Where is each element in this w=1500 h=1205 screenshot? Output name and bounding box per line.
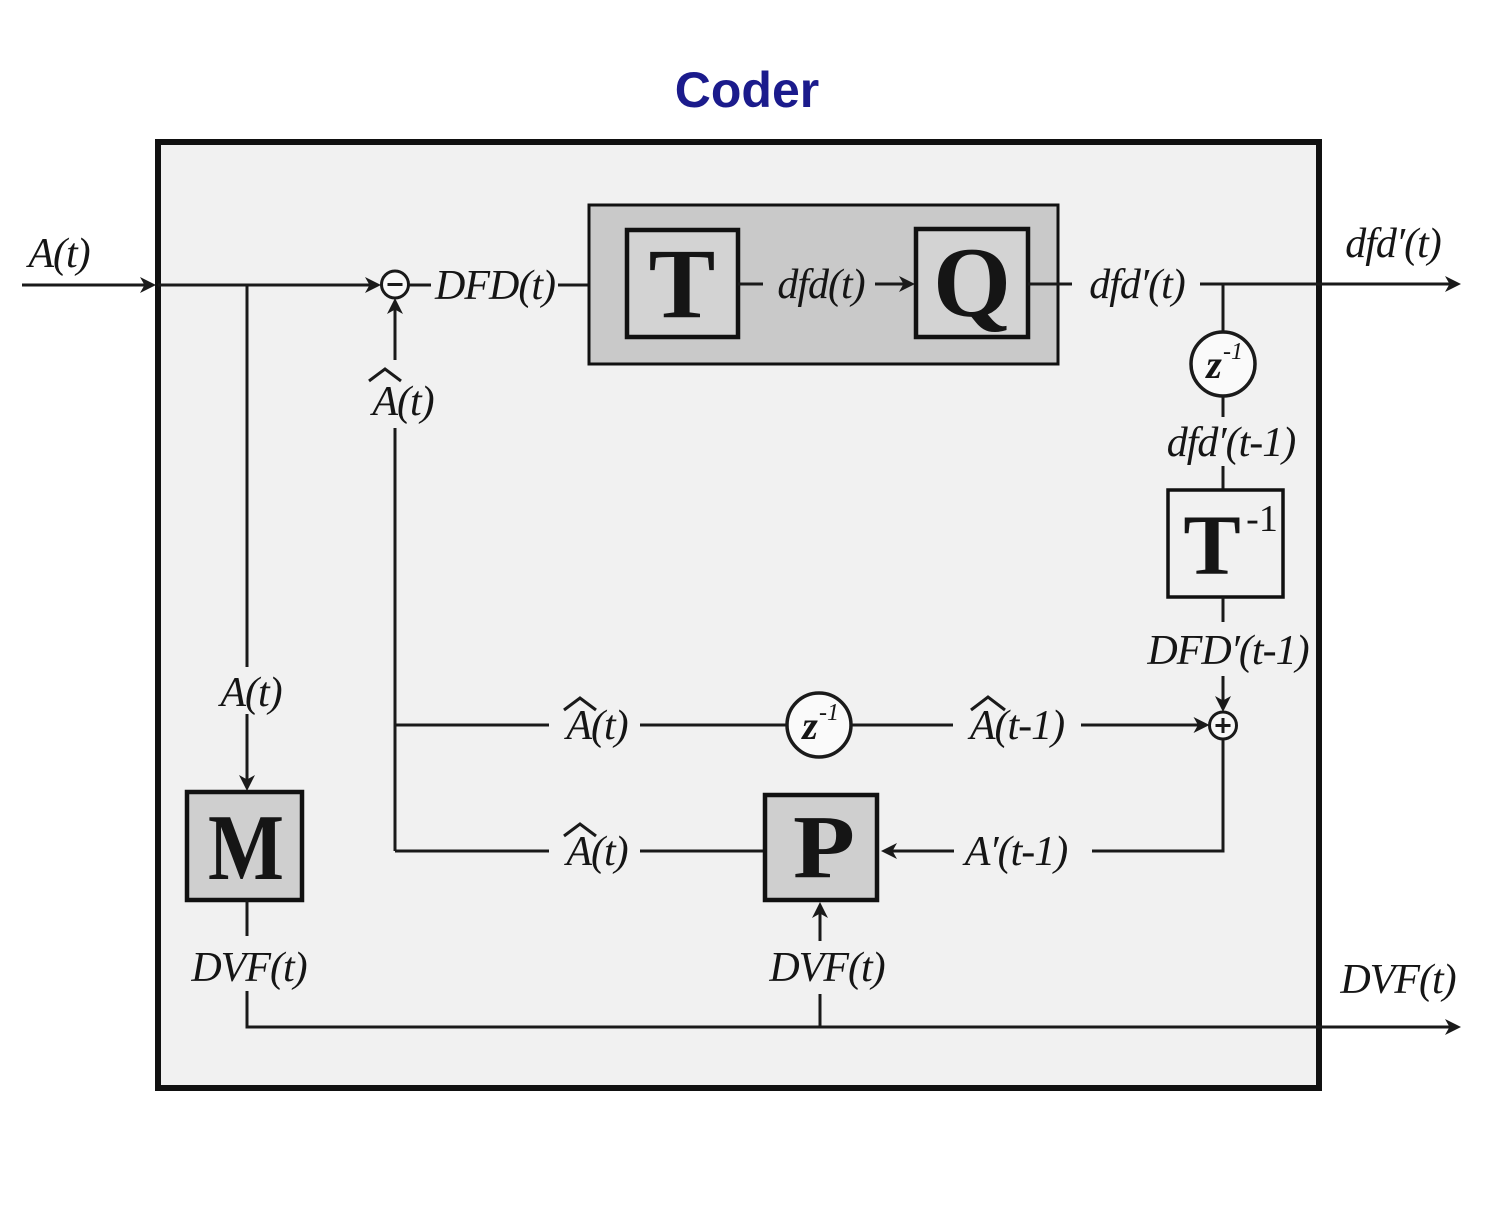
wire dfd'(t-1) to T inverse xyxy=(1222,466,1225,490)
adder node (plus) xyxy=(1210,712,1237,739)
svg-text:z: z xyxy=(1204,342,1222,387)
wire label to delay (mid) xyxy=(640,724,786,727)
svg-text:A(t-1): A(t-1) xyxy=(967,703,1064,749)
wire mid row from feedback to label xyxy=(395,724,549,727)
wire DFD(t) to T block xyxy=(558,284,627,287)
delay z^-1 block (mid) xyxy=(787,693,851,757)
wire T inverse to DFD'(t-1) xyxy=(1222,597,1225,622)
svg-text:dfd′(t): dfd′(t) xyxy=(1089,262,1185,308)
block M xyxy=(187,792,302,900)
wire hat-A(t) arrow up into subtractor xyxy=(394,309,397,360)
block Q xyxy=(916,229,1028,337)
wire input A(t) into box xyxy=(22,284,146,287)
wire DVF(t) arrow up into P xyxy=(819,913,822,941)
svg-text:A′(t-1): A′(t-1) xyxy=(962,829,1067,875)
svg-text:P: P xyxy=(793,798,855,897)
svg-text:DFD′(t-1): DFD′(t-1) xyxy=(1146,628,1308,674)
svg-text:-1: -1 xyxy=(1246,498,1278,540)
block T^-1 xyxy=(1168,490,1283,597)
wire low row from feedback to label xyxy=(395,850,549,853)
wire bottom junction up to DVF(t) label xyxy=(819,994,822,1027)
wire inside to subtractor xyxy=(158,284,371,287)
delay z^-1 block (top) xyxy=(1191,332,1255,396)
svg-text:z: z xyxy=(800,703,818,748)
svg-text:dfd′(t): dfd′(t) xyxy=(1345,221,1441,267)
svg-text:M: M xyxy=(208,796,284,900)
svg-text:DVF(t): DVF(t) xyxy=(768,945,884,991)
wire subtractor to DFD(t) xyxy=(409,284,432,287)
T-Q gray panel xyxy=(589,205,1058,364)
svg-text:dfd(t): dfd(t) xyxy=(777,262,864,308)
block P xyxy=(765,795,877,900)
wire adder down and left to A'(t-1) xyxy=(1092,739,1223,851)
svg-text:Q: Q xyxy=(933,227,1011,338)
svg-text:DFD(t): DFD(t) xyxy=(434,263,555,309)
wire dfd'(t) to output xyxy=(1200,283,1451,286)
wire feedback vertical hat-A(t) xyxy=(394,428,397,851)
coder outer box xyxy=(158,142,1319,1088)
svg-text:T: T xyxy=(649,228,716,339)
svg-text:T: T xyxy=(1183,497,1240,593)
svg-text:DVF(t): DVF(t) xyxy=(190,945,306,991)
wire delay to hat-A(t-1) xyxy=(851,724,953,727)
svg-text:dfd′(t-1): dfd′(t-1) xyxy=(1167,420,1295,466)
svg-text:-1: -1 xyxy=(819,700,839,726)
wire junction down to delay xyxy=(1222,284,1225,331)
subtractor node (minus) xyxy=(382,271,409,298)
wire M down to DVF(t) xyxy=(246,900,249,936)
block T xyxy=(627,230,738,337)
wire label to P block xyxy=(640,850,765,853)
wire hat-A(t-1) arrow into adder xyxy=(1081,724,1199,727)
wire dfd(t) arrow into Q xyxy=(875,283,905,286)
wire A'(t-1) arrow into P xyxy=(892,850,954,853)
svg-text:A(t): A(t) xyxy=(217,670,281,716)
svg-text:DVF(t): DVF(t) xyxy=(1339,957,1455,1003)
junction branch A(t) down xyxy=(246,285,249,667)
wire DFD'(t-1) arrow into adder xyxy=(1222,676,1225,701)
svg-text:-1: -1 xyxy=(1223,339,1243,365)
wire Q to dfd'(t) xyxy=(1028,283,1072,286)
wire delay to dfd'(t-1) xyxy=(1222,396,1225,417)
wire DVF(t) down and right along bottom xyxy=(247,991,1451,1027)
svg-text:A(t): A(t) xyxy=(25,231,89,277)
svg-text:Coder: Coder xyxy=(675,62,819,118)
wire T to dfd(t) xyxy=(738,283,763,286)
wire A(t) arrow into M xyxy=(246,714,249,781)
svg-text:A(t): A(t) xyxy=(369,379,433,425)
